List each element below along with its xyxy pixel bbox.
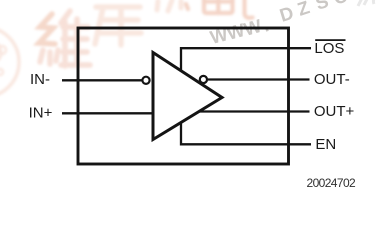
wire IN+ xyxy=(62,112,155,114)
wire OUT+ xyxy=(196,110,310,112)
watermark logo circle (partial, left edge) xyxy=(0,27,19,97)
svg-text:20024702: 20024702 xyxy=(307,176,357,190)
outer box xyxy=(78,28,289,164)
watermark partial strokes xyxy=(157,0,181,11)
watermark char WEI xyxy=(39,11,90,66)
svg-text:EN: EN xyxy=(315,136,336,153)
op-amp U1 (limiting amplifier triangle) xyxy=(153,53,222,140)
svg-text:IN-: IN- xyxy=(30,71,50,88)
overline for LOS xyxy=(315,39,345,41)
inverting output bubble xyxy=(200,76,207,83)
svg-text:IN+: IN+ xyxy=(29,105,53,122)
svg-text:OUT-: OUT- xyxy=(314,71,350,88)
inverting input bubble xyxy=(142,77,149,84)
wire OUT- xyxy=(200,78,310,80)
wire LOS (net LOS with stub) xyxy=(181,48,311,73)
watermark char DIAN (partial, cut by top) xyxy=(186,0,253,18)
svg-text:LOS: LOS xyxy=(314,40,344,57)
wire EN (net EN with stub) xyxy=(181,120,311,144)
watermark char KU xyxy=(95,7,141,45)
watermark tan corner marks xyxy=(358,0,381,6)
wire IN- xyxy=(62,79,142,81)
svg-text:OUT+: OUT+ xyxy=(314,103,355,120)
